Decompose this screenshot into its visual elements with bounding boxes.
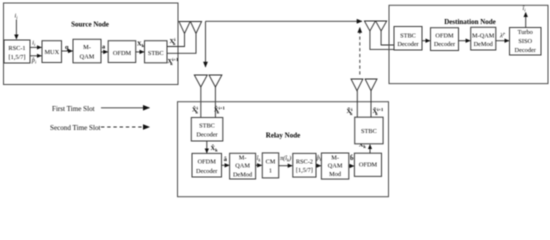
svg-text:X̂i+1k: X̂i+1k [214,105,225,114]
wire STBC to antenna2 X_k^i+1 [167,34,196,53]
block OFDM [108,41,136,63]
svg-text:X̃i+1k: X̃i+1k [373,107,384,116]
svg-text:Relay Node: Relay Node [266,131,300,139]
wire second time slot relay to destination dashed [359,28,361,75]
wire OFDM Decoder to M-QAM DeMod a-hat [222,164,230,166]
svg-text:â: â [224,156,228,163]
svg-text:îi: îi [523,5,527,13]
svg-text:Second Time Slot: Second Time Slot [50,124,100,132]
svg-text:Decoder: Decoder [196,168,218,175]
relay node box [178,102,389,197]
destination node box [389,5,548,83]
wire dest antenna1 to STBC Decoder [370,31,394,49]
svg-text:b̂: b̂ [350,155,354,162]
svg-text:MUX: MUX [44,49,59,56]
svg-text:1: 1 [269,168,272,175]
wire relay STBC to antenna TX2 [370,91,372,118]
source node box [4,3,179,85]
svg-text:Xi+1k: Xi+1k [168,57,179,66]
wire Turbo Decoder output i-hat [525,13,527,28]
wire input arrow into RSC-1 [15,20,17,40]
wire M-QAM to OFDM a [101,51,108,53]
wire RSC-2 to M-QAM Mod p-hat_k [316,165,321,167]
wire MUX to M-QAM q [62,50,73,52]
svg-text:π(îk): π(îk) [280,155,291,163]
svg-text:QAM: QAM [80,54,95,61]
multiplexer MUX [42,41,62,63]
wire first time slot source to relay [205,21,207,67]
svg-text:Decoder: Decoder [196,132,218,139]
svg-text:Decoder: Decoder [434,41,456,48]
svg-text:QAM: QAM [328,163,343,170]
wire dest antenna2 to STBC Decoder [381,31,394,45]
svg-text:q: q [65,44,69,51]
antenna source TX2 [190,22,201,34]
svg-text:M-: M- [239,155,247,162]
block dest STBC Decoder [394,27,422,51]
wire first time slot source to destination [206,20,363,22]
svg-text:a: a [102,44,106,51]
block STBC [145,41,168,63]
svg-text:First Time Slot: First Time Slot [52,105,95,113]
svg-text:[1,5/7]: [1,5/7] [296,167,313,174]
svg-text:OFDM: OFDM [198,159,217,166]
svg-text:Xik: Xik [170,37,177,46]
svg-text:RSC-1: RSC-1 [8,45,25,52]
interleaver CM 1 [262,153,278,178]
encoder RSC-2 [293,153,316,177]
svg-text:M-QAM: M-QAM [472,32,495,39]
svg-text:λ̂i: λ̂i [499,32,506,40]
svg-text:RSC-2: RSC-2 [296,159,313,166]
wire relay STBC to antenna TX1 [356,91,358,118]
wire RSC-1 to MUX systematic i_i [30,46,41,48]
antenna relay TX1 [351,79,363,91]
svg-text:X̂k: X̂k [211,145,219,153]
svg-text:X̂ik: X̂ik [192,105,199,114]
modulator M-QAM [73,39,101,63]
svg-text:Decoder: Decoder [515,47,537,54]
svg-text:p̂i: p̂i [31,57,37,65]
block dest OFDM Decoder [431,28,459,51]
antenna destination RX2 [376,21,387,31]
wire M-QAM DeMod to CM1 i-hat_k [256,164,262,166]
wire M-QAM Mod to OFDM b-hat [349,165,354,167]
block relay OFDM Decoder [192,153,222,177]
svg-text:STBC: STBC [199,122,215,129]
antenna relay RX2 [209,75,222,87]
antenna relay TX2 [365,79,377,91]
antenna destination RX1 [364,21,375,31]
block relay M-QAM DeMod [230,153,256,179]
svg-text:ii: ii [15,13,19,21]
wire STBC Decoder to OFDM Decoder Xhat_k [206,141,208,153]
wire M-QAM DeMod to Turbo lambda-hat [496,40,509,42]
svg-text:îk: îk [257,155,262,163]
svg-text:SISO: SISO [518,38,532,45]
svg-text:Destination Node: Destination Node [444,18,496,26]
block relay M-QAM Mod [321,153,348,179]
block dest M-QAM DeMod [471,27,496,50]
svg-text:DeMod: DeMod [474,41,494,48]
svg-text:Xk: Xk [137,41,145,49]
wire OFDM up to STBC X-tilde_k [369,145,371,154]
svg-text:STBC: STBC [400,32,416,39]
wire relay RX1 stem [200,87,202,118]
block Turbo SISO Decoder [510,28,542,56]
svg-text:OFDM: OFDM [435,32,454,39]
wire OFDM to STBC X_k [136,51,144,53]
svg-text:Mod: Mod [329,171,342,178]
wire STBC to antenna1 X_k^i [167,34,185,47]
block relay STBC [355,117,383,144]
svg-text:OFDM: OFDM [359,162,378,169]
svg-text:Source Node: Source Node [71,21,109,29]
svg-text:STBC: STBC [361,128,377,135]
svg-text:Decoder: Decoder [397,41,419,48]
svg-text:M-: M- [83,44,91,51]
wire relay RX2 stem [214,87,216,118]
svg-text:OFDM: OFDM [113,50,132,57]
svg-text:M-: M- [331,155,339,162]
svg-text:Turbo: Turbo [518,29,533,36]
antenna source TX1 [179,22,190,34]
svg-text:DeMod: DeMod [233,171,253,178]
svg-text:ii: ii [32,39,36,47]
svg-text:X̃ik: X̃ik [347,107,354,116]
svg-text:STBC: STBC [148,50,164,57]
wire OFDM Decoder to M-QAM DeMod [459,40,471,42]
wire RSC-1 to MUX parity p_i [30,55,41,57]
wire STBC Decoder to OFDM Decoder [422,40,430,42]
svg-text:[1,5/7]: [1,5/7] [9,54,26,61]
svg-text:CM: CM [266,159,276,166]
svg-text:QAM: QAM [235,163,250,170]
block relay OFDM [354,153,381,176]
wire CM1 to RSC-2 pi(i-hat_k) [279,165,293,167]
block relay STBC Decoder [191,118,223,142]
antenna relay RX1 [194,75,207,87]
encoder RSC-1 [4,40,30,63]
